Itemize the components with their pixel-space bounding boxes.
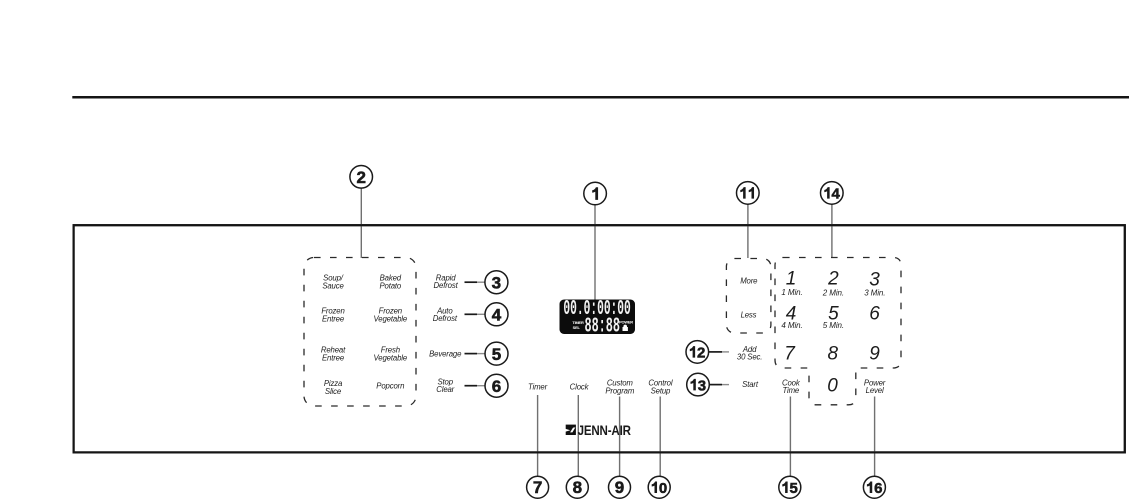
callout 5 bbox=[485, 342, 508, 365]
svg-text:Slice: Slice bbox=[325, 387, 342, 396]
svg-text:Timer: Timer bbox=[528, 382, 548, 391]
callout 2 leader bbox=[360, 188, 362, 258]
svg-text:2: 2 bbox=[356, 168, 365, 187]
callout 3 bbox=[485, 271, 508, 294]
svg-text:Vegetable: Vegetable bbox=[374, 353, 408, 362]
pad Pizza Slice bbox=[324, 379, 343, 396]
label Auto Defrost bbox=[433, 307, 458, 324]
callout 8 bbox=[566, 476, 588, 498]
callout 16 bbox=[863, 476, 885, 498]
LCD display body bbox=[560, 300, 636, 335]
svg-text:SEL: SEL bbox=[573, 325, 581, 330]
connector 6 bbox=[465, 385, 478, 387]
svg-text:3: 3 bbox=[869, 269, 880, 290]
label Stop Clear bbox=[436, 378, 454, 395]
callout 1 leader bbox=[594, 205, 596, 301]
svg-text:6: 6 bbox=[874, 480, 882, 497]
callout 11 leader bbox=[747, 205, 749, 259]
svg-text:3: 3 bbox=[698, 377, 706, 394]
svg-text:Popcorn: Popcorn bbox=[376, 382, 404, 391]
svg-text:8: 8 bbox=[828, 343, 839, 364]
key Power Level bbox=[864, 378, 886, 395]
svg-text:3: 3 bbox=[492, 273, 501, 292]
svg-text:Potato: Potato bbox=[379, 282, 401, 291]
svg-text:6: 6 bbox=[869, 303, 880, 324]
leader 15 bbox=[789, 397, 791, 477]
JENN-AIR logo mark bbox=[566, 425, 576, 435]
control panel outline repaint over leaders bbox=[74, 225, 1125, 452]
leader 16 bbox=[874, 397, 876, 477]
svg-text:Clock: Clock bbox=[570, 382, 590, 391]
svg-text:6: 6 bbox=[492, 377, 501, 396]
svg-text:2 Min.: 2 Min. bbox=[822, 289, 844, 298]
callout 13 bbox=[687, 373, 710, 396]
svg-text:Entree: Entree bbox=[322, 315, 345, 324]
svg-text:Less: Less bbox=[741, 310, 757, 319]
svg-text:Clear: Clear bbox=[436, 385, 454, 394]
callout 6 bbox=[485, 374, 508, 397]
key Cook Time bbox=[782, 378, 801, 395]
callout 10 bbox=[648, 476, 670, 498]
callout 12 bbox=[686, 341, 709, 364]
svg-text:Start: Start bbox=[742, 380, 759, 389]
svg-text:88:88: 88:88 bbox=[585, 316, 620, 339]
svg-text:4: 4 bbox=[832, 186, 841, 203]
svg-text:9: 9 bbox=[615, 478, 624, 497]
key Add 30 Sec bbox=[737, 345, 762, 361]
connector 12 bbox=[709, 351, 723, 353]
top rule bbox=[72, 96, 1129, 99]
svg-text:POWER: POWER bbox=[619, 319, 633, 324]
svg-text:1 Min.: 1 Min. bbox=[781, 288, 802, 297]
svg-text:5: 5 bbox=[492, 345, 501, 364]
leader 9 bbox=[619, 397, 621, 477]
label Rapid Defrost bbox=[434, 273, 459, 290]
control panel outline bbox=[74, 225, 1125, 452]
svg-text:Setup: Setup bbox=[651, 386, 671, 395]
svg-text:5 Min.: 5 Min. bbox=[823, 321, 844, 330]
LCD lock icon bbox=[623, 325, 628, 331]
svg-text:1: 1 bbox=[786, 269, 797, 290]
callout 14 bbox=[821, 182, 844, 205]
pad Soup/Sauce bbox=[322, 274, 344, 291]
leader 10 bbox=[659, 397, 661, 477]
svg-text:Time: Time bbox=[782, 386, 799, 395]
svg-text:2: 2 bbox=[827, 269, 839, 290]
pad Fresh Vegetable bbox=[374, 346, 408, 363]
label Control Setup bbox=[648, 379, 673, 396]
svg-text:5: 5 bbox=[790, 480, 798, 497]
label Custom Program bbox=[605, 379, 635, 396]
pad Reheat Entree bbox=[321, 346, 346, 363]
svg-text:Defrost: Defrost bbox=[434, 281, 459, 290]
svg-text:Defrost: Defrost bbox=[433, 314, 458, 323]
connector 5 bbox=[465, 353, 478, 355]
svg-text:Program: Program bbox=[605, 386, 635, 395]
callout 11 bbox=[737, 182, 760, 205]
svg-text:0: 0 bbox=[659, 480, 667, 497]
pad Frozen Vegetable bbox=[374, 307, 408, 324]
connector 4 bbox=[465, 313, 478, 315]
callout 7 bbox=[527, 476, 549, 498]
More Less dashed box bbox=[726, 259, 771, 334]
svg-text:8: 8 bbox=[573, 478, 582, 497]
pad Baked Potato bbox=[379, 273, 401, 290]
svg-text:Beverage: Beverage bbox=[429, 349, 462, 358]
svg-text:Sauce: Sauce bbox=[322, 282, 344, 291]
connector 3 bbox=[465, 281, 478, 283]
svg-text:More: More bbox=[740, 277, 758, 286]
connector 13 bbox=[709, 384, 722, 386]
callout 4 bbox=[485, 303, 508, 326]
svg-text:Entree: Entree bbox=[322, 353, 345, 362]
svg-text:4: 4 bbox=[492, 306, 502, 325]
food pads dashed box bbox=[304, 258, 416, 407]
leader 8 bbox=[577, 395, 579, 476]
svg-text:Vegetable: Vegetable bbox=[374, 315, 408, 324]
svg-text:0: 0 bbox=[827, 375, 838, 396]
callout 1 bbox=[584, 182, 607, 205]
svg-text:9: 9 bbox=[869, 343, 880, 364]
callout 2 bbox=[350, 166, 373, 189]
svg-text:2: 2 bbox=[697, 345, 705, 362]
callout 14 leader bbox=[831, 205, 833, 258]
svg-text:3 Min.: 3 Min. bbox=[864, 289, 885, 298]
svg-text:7: 7 bbox=[784, 343, 796, 364]
pad Frozen Entree bbox=[321, 307, 345, 324]
leader 7 bbox=[537, 395, 539, 476]
svg-text:Level: Level bbox=[866, 386, 884, 395]
callout 15 bbox=[779, 476, 801, 498]
svg-text:4 Min.: 4 Min. bbox=[781, 321, 802, 330]
keypad dashed outline with 0 pouch bbox=[775, 258, 901, 405]
svg-text:30 Sec.: 30 Sec. bbox=[737, 352, 762, 361]
svg-text:7: 7 bbox=[533, 478, 542, 497]
callout 9 bbox=[609, 476, 631, 498]
svg-text:JENN-AIR: JENN-AIR bbox=[578, 423, 631, 438]
